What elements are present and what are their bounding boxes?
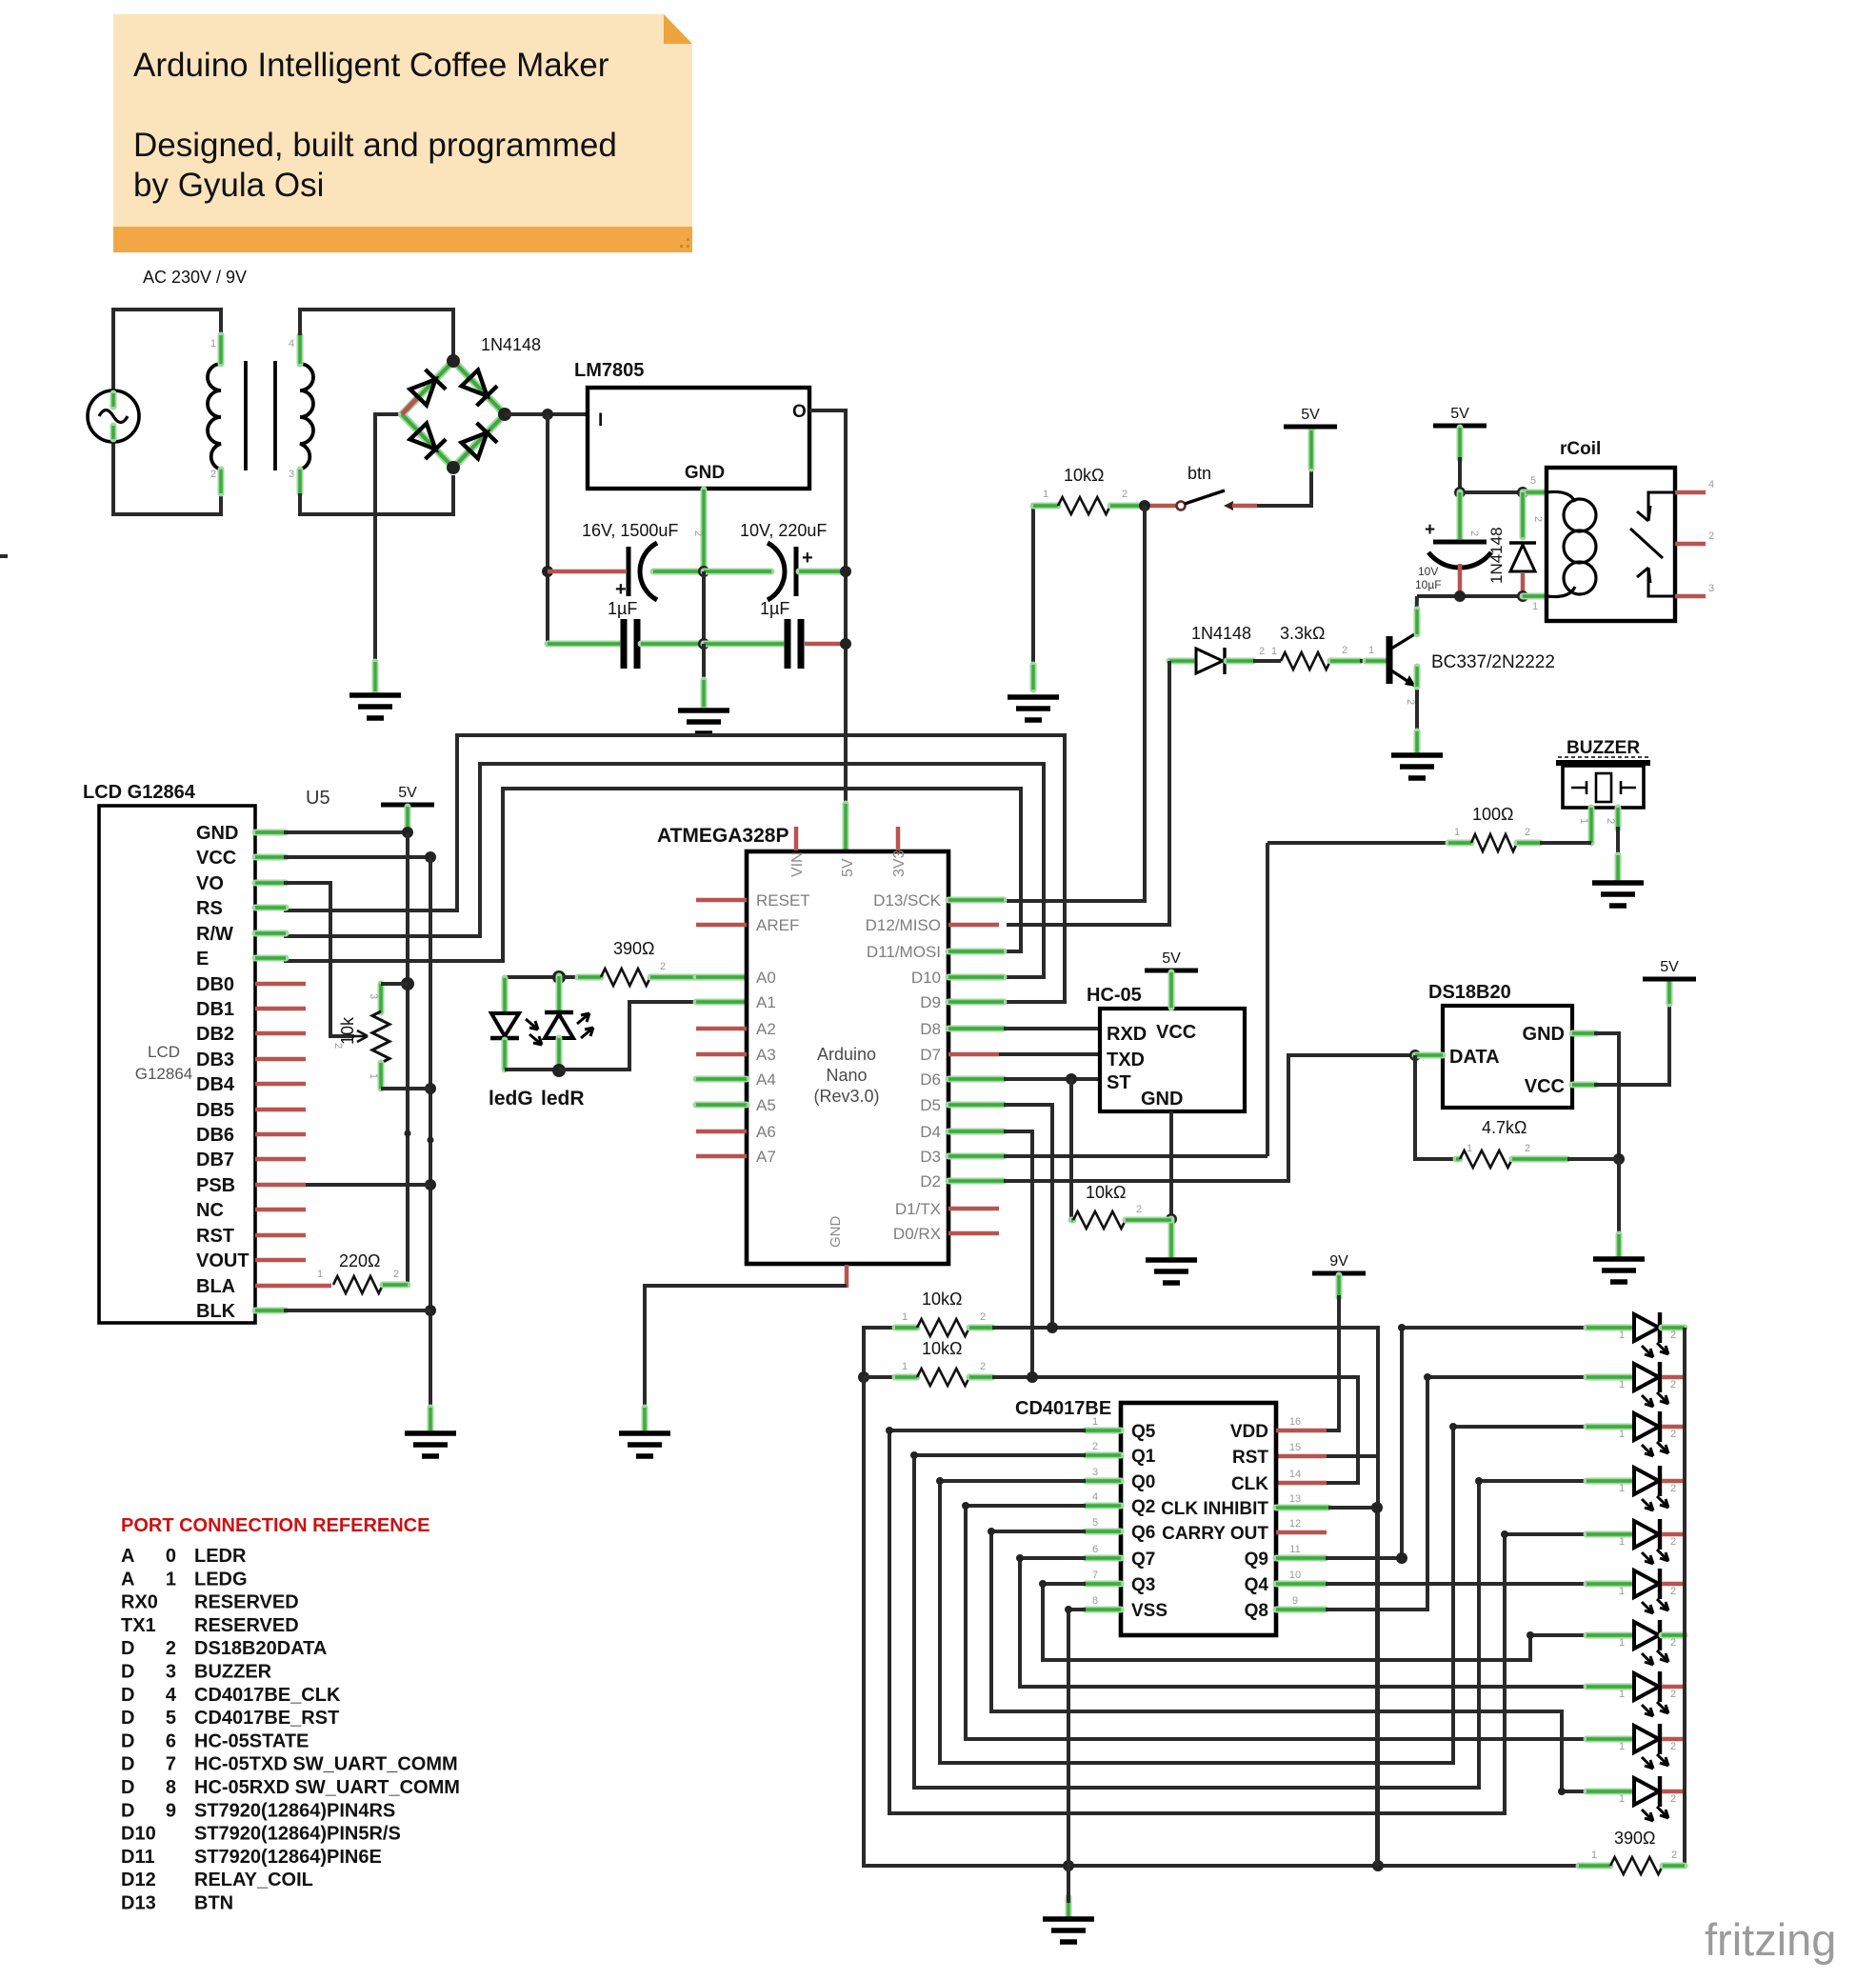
svg-text:1: 1 bbox=[210, 338, 216, 350]
svg-text:1: 1 bbox=[1043, 489, 1048, 500]
svg-text:10k: 10k bbox=[338, 1016, 357, 1045]
diode D2 (bridge upper-right) bbox=[459, 369, 497, 407]
svg-text:BUZZER: BUZZER bbox=[1567, 738, 1640, 758]
3V3 pin stub bbox=[896, 827, 901, 850]
svg-text:1: 1 bbox=[1619, 1429, 1625, 1440]
LCD pin DB4 lead (n.c.) bbox=[255, 1082, 306, 1087]
svg-text:G12864: G12864 bbox=[135, 1065, 193, 1083]
R9 pin 1 lead bbox=[895, 1325, 917, 1331]
junction bridge right bbox=[498, 408, 511, 421]
svg-text:HC-05TXD SW_UART_COMM: HC-05TXD SW_UART_COMM bbox=[194, 1754, 458, 1775]
svg-text:BTN: BTN bbox=[194, 1893, 233, 1914]
svg-text:CD4017BE_RST: CD4017BE_RST bbox=[194, 1708, 339, 1729]
svg-text:D6: D6 bbox=[920, 1070, 941, 1089]
A1 pin lead bbox=[696, 999, 747, 1006]
svg-text:RELAY_COIL: RELAY_COIL bbox=[194, 1870, 313, 1890]
temperature sensor DS18B20 bbox=[1443, 1006, 1572, 1108]
DS VCC pin lead bbox=[1572, 1082, 1596, 1089]
AREF pin stub bbox=[696, 923, 747, 928]
svg-text:GND: GND bbox=[828, 1216, 844, 1249]
wire LCD VCC row to ground column bbox=[284, 855, 430, 859]
svg-text:A6: A6 bbox=[756, 1123, 776, 1141]
ground (CD4017) bbox=[1043, 1919, 1094, 1942]
junction C1 pin1 node bbox=[542, 566, 553, 577]
CD4017 pin 1 Q5 lead bbox=[1086, 1428, 1121, 1434]
svg-text:14: 14 bbox=[1289, 1469, 1301, 1480]
svg-text:2: 2 bbox=[1468, 530, 1480, 536]
LCD pin R/W lead bbox=[255, 930, 286, 937]
D4 pin lead bbox=[948, 1129, 1004, 1135]
svg-text:A5: A5 bbox=[756, 1096, 776, 1114]
svg-text:3V3: 3V3 bbox=[891, 850, 908, 877]
wire CLK INHIBIT down to ground row bbox=[1328, 1508, 1377, 1866]
wire left ground loop bbox=[864, 1377, 1579, 1866]
svg-text:1: 1 bbox=[1619, 1379, 1625, 1390]
svg-text:2: 2 bbox=[1670, 1483, 1676, 1494]
svg-text:3: 3 bbox=[289, 469, 294, 480]
svg-text:1: 1 bbox=[166, 1569, 176, 1590]
wire DS GND down to 4.7k node bbox=[1594, 1033, 1619, 1159]
R10 pin 1 lead bbox=[895, 1374, 917, 1381]
btn pin 1 lead bbox=[1150, 504, 1177, 509]
svg-text:1: 1 bbox=[1532, 601, 1538, 612]
junction 5V/LCD GND bbox=[402, 827, 413, 838]
D5 pin 2 lead bbox=[1520, 492, 1527, 537]
C5 pin 2 lead bbox=[1457, 492, 1464, 539]
svg-text:D1/TX: D1/TX bbox=[895, 1200, 941, 1218]
svg-text:4: 4 bbox=[1092, 1491, 1098, 1503]
svg-text:GND: GND bbox=[1141, 1089, 1183, 1110]
svg-text:Q7: Q7 bbox=[1131, 1550, 1155, 1570]
svg-text:DB6: DB6 bbox=[196, 1125, 234, 1146]
svg-text:2: 2 bbox=[210, 469, 216, 480]
wire D7 to HC-05 TXD bbox=[999, 1052, 1100, 1056]
svg-text:13: 13 bbox=[1289, 1493, 1301, 1505]
bend point bbox=[988, 1528, 995, 1535]
bend point bbox=[1449, 1423, 1457, 1430]
svg-text:AC 230V / 9V: AC 230V / 9V bbox=[143, 268, 247, 287]
svg-text:A0: A0 bbox=[756, 969, 776, 987]
relay pin 5 lead bbox=[1523, 490, 1547, 496]
LCD pin DB1 lead (n.c.) bbox=[255, 1007, 306, 1011]
supply 5V (DS18B20) bbox=[1643, 977, 1696, 982]
junction relay 5V node bbox=[1454, 487, 1466, 498]
counter U2 CD4017BE bbox=[1121, 1403, 1276, 1635]
svg-text:390Ω: 390Ω bbox=[1614, 1829, 1656, 1848]
buzzer pin 1 stem bbox=[1588, 808, 1595, 843]
resistor R7 10k (ST pulldown) bbox=[1069, 1079, 1073, 1220]
svg-text:1: 1 bbox=[1619, 1637, 1625, 1649]
junction CLK INHIBIT bbox=[1371, 1502, 1383, 1513]
D9 pin lead bbox=[948, 999, 1004, 1006]
pot pin 1 lead bbox=[378, 1063, 385, 1089]
svg-text:D: D bbox=[121, 1638, 134, 1659]
wire led bottom row to A1 bbox=[505, 1068, 559, 1071]
svg-text:10V: 10V bbox=[1418, 565, 1438, 578]
DS GND pin lead bbox=[1572, 1030, 1596, 1037]
svg-text:5V: 5V bbox=[840, 858, 856, 877]
resistor R2 10k (btn pulldown) bbox=[1031, 506, 1035, 667]
svg-text:D11/MOSI: D11/MOSI bbox=[867, 943, 941, 961]
transformer core bbox=[244, 361, 248, 470]
svg-text:VSS: VSS bbox=[1131, 1601, 1168, 1621]
supply 5V (relay) bbox=[1433, 424, 1487, 429]
buzzer bbox=[1563, 766, 1644, 808]
bend point bbox=[1558, 1788, 1566, 1795]
svg-text:1: 1 bbox=[1619, 1741, 1625, 1752]
svg-text:5V: 5V bbox=[1162, 950, 1181, 967]
relay pin 4 lead bbox=[1675, 490, 1706, 495]
wire net E to D11 bbox=[284, 789, 1021, 961]
svg-text:ST: ST bbox=[1107, 1072, 1131, 1093]
wire R10 row to CLK column bbox=[992, 1377, 1358, 1483]
pin 1 of AC source bbox=[110, 393, 117, 407]
btn pin 3 lead bbox=[1232, 504, 1257, 509]
svg-text:DATA: DATA bbox=[1449, 1047, 1500, 1068]
LCD pin VOUT lead (n.c.) bbox=[255, 1258, 306, 1263]
D12 pin stub bbox=[948, 923, 999, 928]
svg-text:9: 9 bbox=[166, 1800, 176, 1821]
transformer T1 secondary coil bbox=[300, 364, 313, 470]
wire D2 to DS18B20 DATA bbox=[1004, 1055, 1413, 1181]
svg-text:PORT CONNECTION REFERENCE: PORT CONNECTION REFERENCE bbox=[121, 1515, 429, 1536]
AC source V1 bbox=[88, 390, 139, 442]
svg-text:rCoil: rCoil bbox=[1560, 439, 1601, 459]
wire RST stub row bbox=[1338, 1454, 1378, 1458]
LED LED5 bbox=[1587, 1531, 1634, 1538]
svg-text:D7: D7 bbox=[920, 1046, 941, 1064]
LCD pin PSB lead bbox=[255, 1183, 306, 1188]
svg-text:A: A bbox=[121, 1569, 134, 1590]
ground (transistor) bbox=[1391, 755, 1443, 778]
bend point bbox=[962, 1502, 969, 1510]
CD4017 pin 5 Q6 lead bbox=[1086, 1529, 1121, 1535]
HC-05 GND stem to ground bbox=[1169, 1111, 1173, 1219]
ground (buzzer) bbox=[1592, 883, 1644, 906]
D0/RX pin stub (n.c.) bbox=[948, 1231, 999, 1236]
svg-text:D11: D11 bbox=[121, 1847, 155, 1868]
D7 pin stub bbox=[948, 1052, 999, 1057]
svg-text:10kΩ: 10kΩ bbox=[922, 1290, 962, 1309]
LCD pin DB0 lead (n.c.) bbox=[255, 982, 306, 987]
transformer secondary pin 4 bbox=[297, 335, 304, 364]
svg-text:DB2: DB2 bbox=[196, 1024, 234, 1045]
svg-text:RS: RS bbox=[196, 898, 223, 919]
svg-text:11: 11 bbox=[1289, 1544, 1300, 1555]
junction bridge bottom bbox=[447, 461, 460, 474]
svg-text:NC: NC bbox=[196, 1200, 224, 1221]
svg-text:1N4148: 1N4148 bbox=[481, 335, 541, 354]
svg-text:CLK INHIBIT: CLK INHIBIT bbox=[1161, 1499, 1268, 1519]
wire collector up to relay row bbox=[1416, 596, 1417, 634]
CD4017 pin 6 Q7 lead bbox=[1086, 1555, 1121, 1562]
supply 5V (HC-05) bbox=[1145, 969, 1198, 973]
wire R9 row to RST column bbox=[992, 1328, 1378, 1866]
LCD pin DB7 lead (n.c.) bbox=[255, 1157, 306, 1162]
svg-text:1: 1 bbox=[1619, 1330, 1625, 1341]
svg-text:LCD: LCD bbox=[148, 1043, 180, 1061]
A6 pin stub bbox=[696, 1130, 747, 1134]
supply 9V (CD4017) bbox=[1312, 1271, 1366, 1276]
svg-text:CLK: CLK bbox=[1231, 1474, 1268, 1494]
junction 4.7k right bbox=[1613, 1153, 1625, 1165]
LCD pin VO lead bbox=[255, 880, 286, 887]
svg-text:3: 3 bbox=[166, 1662, 176, 1683]
wire BLK to ground column bbox=[284, 1309, 430, 1312]
LED LED10 bbox=[1587, 1789, 1634, 1795]
wire DS VCC to 5V bbox=[1594, 1002, 1669, 1085]
LCD pin NC lead (n.c.) bbox=[255, 1208, 306, 1212]
svg-text:O: O bbox=[792, 402, 807, 422]
svg-text:BUZZER: BUZZER bbox=[194, 1662, 272, 1683]
ground (btn resistor) bbox=[1008, 697, 1059, 720]
junction left loop / R10 bbox=[858, 1371, 869, 1383]
bend point bbox=[1424, 1373, 1431, 1381]
svg-text:LEDR: LEDR bbox=[194, 1546, 247, 1567]
CD4017 CARRY OUT pin stub (n.c.) bbox=[1276, 1530, 1327, 1535]
svg-text:1: 1 bbox=[1619, 1483, 1625, 1494]
LCD pin E lead bbox=[255, 955, 286, 962]
svg-text:Q4: Q4 bbox=[1245, 1575, 1269, 1595]
transformer primary pin 2 bbox=[218, 470, 225, 493]
D11 pin lead bbox=[948, 949, 1004, 955]
svg-text:2: 2 bbox=[1605, 818, 1616, 824]
resistor R9 10k zigzag bbox=[917, 1319, 969, 1336]
wire D6 to HC-05 ST bbox=[1004, 1077, 1100, 1081]
DATA pin lead bbox=[1415, 1052, 1443, 1059]
svg-text:RST: RST bbox=[196, 1226, 234, 1247]
bend point bbox=[1039, 1580, 1047, 1588]
svg-text:2: 2 bbox=[1122, 489, 1128, 500]
junction btn/R2/D13 bbox=[1139, 500, 1150, 511]
svg-text:2: 2 bbox=[1670, 1793, 1676, 1805]
junction VSS ground bbox=[1063, 1860, 1074, 1871]
diode D3 (bridge lower-left) bbox=[408, 422, 446, 460]
svg-text:DB1: DB1 bbox=[196, 999, 234, 1020]
svg-text:2: 2 bbox=[1670, 1536, 1676, 1548]
svg-text:D5: D5 bbox=[920, 1096, 941, 1114]
R6 pin 2 lead bbox=[650, 974, 698, 981]
svg-text:16: 16 bbox=[1289, 1416, 1301, 1428]
svg-text:+: + bbox=[802, 548, 813, 569]
svg-text:2: 2 bbox=[1136, 1204, 1142, 1215]
wire ATMEGA GND to ground bbox=[645, 1286, 847, 1410]
ground (ATMEGA) bbox=[619, 1433, 670, 1456]
wire LED cathode rail bbox=[1664, 1328, 1685, 1866]
junction gnd / C3 bbox=[698, 638, 709, 650]
bend point bbox=[1065, 1606, 1072, 1613]
ATMEGA 5V pin stub bbox=[843, 804, 849, 850]
resistor R2 10k zigzag bbox=[1058, 497, 1110, 514]
svg-text:5V: 5V bbox=[1450, 406, 1469, 422]
junction D5/R9 bbox=[1047, 1322, 1058, 1333]
supply 5V (LCD) bbox=[381, 803, 434, 808]
wire 5V vertical down to ATMEGA bbox=[844, 571, 848, 827]
svg-text:VIN: VIN bbox=[789, 851, 806, 877]
LED LED8 bbox=[1587, 1684, 1634, 1690]
R11 pin 1 lead bbox=[1579, 1863, 1610, 1870]
svg-text:1: 1 bbox=[1368, 645, 1374, 656]
svg-text:D: D bbox=[121, 1730, 134, 1751]
svg-text:1: 1 bbox=[1619, 1793, 1625, 1805]
CD4017 Q9 pin lead bbox=[1276, 1555, 1326, 1562]
voltage regulator LM7805 bbox=[588, 388, 809, 489]
CD4017 RST pin stub bbox=[1276, 1454, 1327, 1459]
wire 9V down to VDD bbox=[1327, 1295, 1339, 1430]
C4 pin 2 lead bbox=[704, 641, 784, 648]
svg-text:RESERVED: RESERVED bbox=[194, 1615, 299, 1636]
svg-text:9V: 9V bbox=[1329, 1253, 1348, 1270]
svg-text:Arduino Intelligent Coffee Mak: Arduino Intelligent Coffee Maker bbox=[133, 47, 609, 84]
svg-text:LM7805: LM7805 bbox=[574, 360, 644, 381]
svg-text:9: 9 bbox=[1292, 1595, 1298, 1607]
svg-text:VCC: VCC bbox=[196, 848, 236, 869]
R2 pin 2 lead bbox=[1110, 503, 1143, 510]
junction PSB bbox=[425, 1179, 436, 1190]
svg-text:10kΩ: 10kΩ bbox=[922, 1339, 962, 1358]
svg-text:A2: A2 bbox=[756, 1020, 776, 1038]
junction C5 bottom bbox=[1454, 590, 1466, 602]
C2 pin 2 lead bbox=[704, 569, 771, 575]
svg-text:7: 7 bbox=[1092, 1570, 1098, 1581]
LCD pin DB6 lead (n.c.) bbox=[255, 1132, 306, 1137]
svg-text:RESERVED: RESERVED bbox=[194, 1592, 299, 1613]
svg-text:1: 1 bbox=[1092, 1416, 1098, 1428]
wire net Q4 to LED6 bbox=[1326, 1582, 1587, 1586]
bend point bbox=[1501, 1530, 1508, 1538]
svg-text:VOUT: VOUT bbox=[196, 1250, 249, 1271]
wire ground column down bbox=[429, 857, 432, 1410]
junction ST pulldown bbox=[1066, 1073, 1077, 1085]
svg-text:1µF: 1µF bbox=[760, 599, 789, 618]
ground (bridge) bbox=[349, 695, 401, 718]
svg-text:8: 8 bbox=[1092, 1595, 1098, 1607]
svg-text:2: 2 bbox=[1670, 1429, 1676, 1440]
wire net R/W to D10 bbox=[284, 764, 1044, 977]
R10 pin 2 lead bbox=[969, 1374, 992, 1381]
wire primary loop bottom bbox=[113, 441, 221, 514]
svg-text:DB5: DB5 bbox=[196, 1100, 234, 1121]
svg-text:E: E bbox=[196, 949, 209, 970]
R11 pin 2 lead bbox=[1663, 1863, 1685, 1870]
svg-text:3: 3 bbox=[1092, 1467, 1098, 1478]
wire net Q9 to LED1 bbox=[1326, 1328, 1587, 1558]
svg-text:RST: RST bbox=[1232, 1448, 1268, 1468]
svg-text:btn: btn bbox=[1187, 464, 1211, 483]
LCD pin RS lead bbox=[255, 905, 286, 911]
svg-text:A7: A7 bbox=[756, 1148, 776, 1166]
R2 pin 1 lead bbox=[1033, 503, 1058, 510]
bend point bbox=[1016, 1554, 1024, 1562]
bend point bbox=[1398, 1324, 1406, 1331]
svg-text:D: D bbox=[121, 1662, 134, 1683]
relay coil loops bbox=[1547, 491, 1575, 502]
buzzer pin 2 stem bbox=[1615, 808, 1622, 829]
resistor R4 100 zigzag bbox=[1471, 834, 1517, 851]
wire emitter down to ground bbox=[1415, 687, 1419, 733]
junction D5 bottom bbox=[1517, 590, 1528, 602]
LCD pin BLA lead bbox=[255, 1284, 331, 1289]
svg-text:5V: 5V bbox=[1301, 407, 1320, 423]
microcontroller U1 ATMEGA328P (Arduino Nano) bbox=[747, 851, 948, 1264]
junction ledR top bbox=[552, 970, 566, 984]
D6 pin 2 lead bbox=[1227, 658, 1253, 665]
svg-text:D: D bbox=[121, 1754, 134, 1775]
resistor R11 390 zigzag bbox=[1610, 1857, 1663, 1874]
junction DATA node bbox=[1409, 1050, 1421, 1061]
wire VSS to ground row bbox=[1068, 1610, 1086, 1866]
svg-text:2: 2 bbox=[1092, 1441, 1098, 1452]
wire net Q0 to LED3 bbox=[940, 1427, 1587, 1763]
wire left loop top bbox=[864, 1328, 917, 1377]
transistor Q1 BC337/2N2222 bbox=[1387, 636, 1393, 684]
ground (regulator) bbox=[678, 710, 729, 733]
D1/TX pin stub (n.c.) bbox=[948, 1207, 999, 1211]
bend point bbox=[1475, 1477, 1483, 1485]
svg-text:Q2: Q2 bbox=[1131, 1497, 1155, 1517]
junction D4/R10 bbox=[1027, 1371, 1038, 1383]
wire net Q5 to LED5 bbox=[889, 1430, 1587, 1813]
wire bridge left vertex to ground bbox=[375, 414, 402, 667]
wire net Q3 to LED7 bbox=[1043, 1584, 1587, 1660]
svg-text:HC-05RXD SW_UART_COMM: HC-05RXD SW_UART_COMM bbox=[194, 1777, 460, 1798]
svg-text:1: 1 bbox=[1578, 818, 1589, 824]
wire D8 to HC-05 RXD bbox=[1004, 1027, 1100, 1030]
LED LED9 bbox=[1587, 1736, 1634, 1743]
wire net RS to D9 bbox=[284, 735, 1065, 1002]
LED LED2 bbox=[1587, 1374, 1634, 1381]
svg-text:VCC: VCC bbox=[1156, 1022, 1196, 1043]
relay rCoil bbox=[1547, 468, 1675, 621]
svg-text:Q1: Q1 bbox=[1131, 1447, 1156, 1467]
wire collector node row bbox=[1417, 594, 1547, 598]
wire 5V column down to BLA resistor bbox=[384, 832, 408, 1285]
svg-text:A4: A4 bbox=[756, 1070, 776, 1089]
svg-text:390Ω: 390Ω bbox=[613, 939, 655, 958]
svg-text:2: 2 bbox=[1405, 699, 1416, 705]
C5 pin 1 lead bbox=[1458, 564, 1463, 594]
R5 pin 2 lead bbox=[383, 1282, 408, 1289]
wire D13 net: btn junction down to D13 row bbox=[1007, 506, 1145, 901]
relay pin 3 lead bbox=[1675, 594, 1706, 599]
svg-text:1: 1 bbox=[1454, 827, 1460, 838]
svg-text:2: 2 bbox=[1342, 645, 1347, 656]
svg-text:2: 2 bbox=[1670, 1637, 1676, 1649]
svg-text:2: 2 bbox=[1525, 1143, 1530, 1154]
CD4017 VDD pin stub bbox=[1276, 1429, 1327, 1433]
svg-text:A3: A3 bbox=[756, 1046, 776, 1064]
svg-text:1: 1 bbox=[1619, 1689, 1625, 1700]
svg-text:2: 2 bbox=[1670, 1586, 1676, 1597]
sticky note with title bbox=[113, 14, 692, 227]
svg-text:ATMEGA328P: ATMEGA328P bbox=[657, 825, 788, 847]
wire R4 to buzzer pin1 bbox=[1540, 841, 1591, 845]
svg-text:5V: 5V bbox=[398, 785, 417, 801]
svg-text:D12: D12 bbox=[121, 1870, 156, 1890]
ledR pin lead bottom bbox=[556, 1038, 563, 1070]
svg-text:D2: D2 bbox=[920, 1172, 941, 1190]
svg-text:GND: GND bbox=[685, 463, 725, 483]
LM7805 GND stem bbox=[701, 490, 708, 570]
LED LED3 bbox=[1587, 1424, 1634, 1430]
A2 pin stub bbox=[696, 1027, 747, 1031]
svg-text:BLA: BLA bbox=[196, 1276, 235, 1297]
wire R6 to A0 bbox=[698, 975, 747, 979]
svg-text:TX1: TX1 bbox=[121, 1615, 156, 1636]
wire D3 to buzzer resistor bbox=[1004, 1154, 1267, 1158]
svg-text:7: 7 bbox=[166, 1754, 176, 1775]
CD4017 pin 8 VSS lead bbox=[1086, 1607, 1121, 1613]
